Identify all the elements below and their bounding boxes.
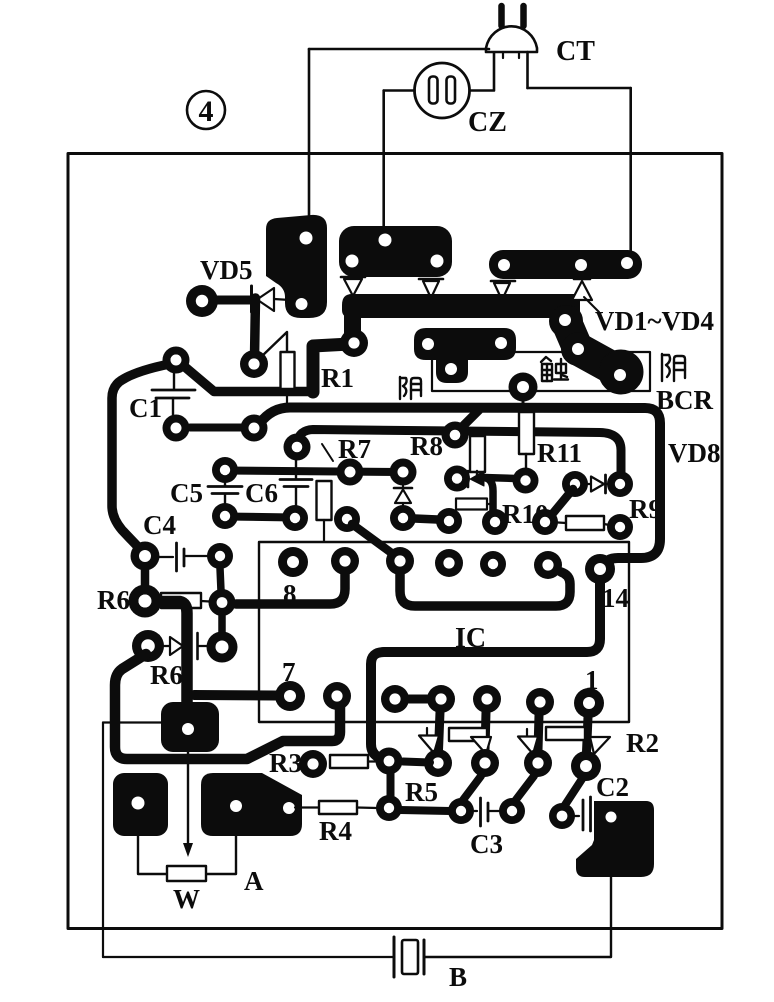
pad node below VD5 [240, 350, 268, 378]
pad pin 7 [275, 681, 305, 711]
svg-text:C3: C3 [470, 829, 503, 859]
diode VD5 symbol [252, 286, 291, 312]
pad pin 12 [480, 551, 506, 577]
capacitor C6 symbol [280, 459, 312, 505]
pad BCR gate [509, 373, 538, 402]
pad blob bottom-left [113, 773, 168, 836]
resistor R1 body [281, 352, 295, 389]
svg-text:C6: C6 [245, 478, 278, 508]
svg-text:C1: C1 [129, 393, 162, 423]
pad C4 right [207, 543, 233, 569]
pad blob C2 (bottom right) [576, 801, 654, 877]
pad C4 left [131, 542, 160, 571]
pad VD7 cathode [207, 632, 238, 663]
wire R4 right lead [357, 806, 377, 809]
label yin (right) [662, 354, 685, 381]
pad VD5 anode [186, 285, 218, 317]
pad pin 10 [386, 547, 414, 575]
pad R6 right [209, 589, 236, 616]
trace blob top-middle (CZ net) [339, 226, 452, 277]
svg-text:R6: R6 [97, 585, 130, 615]
diode VD4 [572, 279, 592, 300]
svg-text:14: 14 [602, 583, 629, 613]
pad VD6 top [390, 459, 417, 486]
trace R6 net down to blob [150, 602, 187, 709]
plug CT [486, 6, 537, 58]
trace diagonal to IC pad [352, 524, 397, 557]
svg-text:C2: C2 [596, 772, 629, 802]
diode VD7 symbol [162, 633, 209, 659]
svg-text:R8: R8 [410, 431, 443, 461]
svg-text:R3: R3 [269, 748, 302, 778]
capacitor C3 symbol [472, 798, 500, 826]
pad VD8 right [607, 471, 633, 497]
pad pin 14 [585, 554, 615, 584]
trace B (pin 14 down around to R3) [371, 578, 600, 759]
diode VD8 symbol [588, 475, 609, 493]
resistor body (row, left) [449, 728, 487, 741]
pad hole middle [379, 234, 392, 247]
trace A (pin 12 to pin 10) [400, 570, 570, 606]
pad R11 bottom [513, 468, 539, 494]
wire A-box left vertical [102, 723, 104, 958]
pad C1 bottom [163, 415, 190, 442]
diode VD1 [341, 277, 365, 296]
pad R6 left [129, 585, 162, 618]
pad pin 6 [323, 682, 351, 710]
wire plug right prong down [526, 52, 529, 88]
capacitor C2 symbol [574, 797, 591, 831]
svg-text:C4: C4 [143, 510, 176, 540]
trace pin1 stub down [587, 717, 589, 752]
wire R1 bottom lead [286, 396, 288, 408]
capacitor C1 symbol [152, 372, 195, 415]
trace diagonal R9 left pad up [549, 489, 573, 518]
pad row below pin3 [471, 749, 499, 777]
thyristor symbol T2 [471, 737, 491, 754]
pad node mid row [334, 506, 360, 532]
wire CZ left to vertical [384, 89, 415, 92]
pad R9 left [532, 509, 558, 535]
pad pin 8 [278, 547, 308, 577]
thyristor symbol T1 [419, 728, 439, 753]
trace bar top-right [489, 250, 642, 279]
potentiometer W body [167, 866, 206, 881]
svg-text:R9: R9 [629, 494, 662, 524]
resistor R8 body [470, 436, 485, 472]
pad C1 top [163, 347, 190, 374]
component outline BCR box [432, 352, 650, 391]
resistor R10 body [452, 499, 492, 515]
svg-text:R1: R1 [321, 363, 354, 393]
pad node left of bar2 [241, 415, 268, 442]
thick power trace (mega bar) [342, 294, 580, 336]
wire R4 left lead [295, 806, 319, 808]
arrow to R7 [322, 444, 333, 461]
pad C5 bottom [212, 503, 238, 529]
wire pad to R1 top [261, 332, 287, 357]
pad hole [445, 363, 457, 375]
trace blob BCR left [414, 328, 516, 383]
pad hole left [346, 255, 359, 268]
pad gate left [444, 466, 470, 492]
pad row below pin4 [424, 749, 452, 777]
svg-text:R11: R11 [537, 438, 582, 468]
svg-text:1: 1 [585, 665, 599, 695]
pad hole restated [171, 355, 182, 366]
wire W right [207, 836, 236, 874]
pad VD7 anode [132, 630, 164, 662]
board outline [68, 154, 722, 929]
trace R3 pad to T1 pad [403, 762, 430, 763]
resistor R2 body [546, 727, 585, 740]
pad R1 top (mega bar net) [340, 329, 368, 357]
pad hole middle [575, 259, 587, 271]
resistor R6 body [161, 593, 201, 608]
trace bar2 (long trace to pin 14) [260, 408, 660, 568]
svg-text:R4: R4 [319, 816, 352, 846]
diode VD3 [491, 281, 515, 300]
trace C4 left down to R6 pad [141, 568, 150, 590]
trace stub down [218, 615, 226, 634]
pad C3 right [499, 798, 525, 824]
thyristor symbol T3 [518, 729, 538, 754]
gate line: pad, tick, arrow, trace to R11 pad [468, 471, 516, 512]
wire R6 right lead [201, 600, 210, 603]
pad hole in blob bottom [296, 298, 308, 310]
wire left vertical plug net down to PCB blob [308, 49, 311, 222]
pad pin 13 [534, 551, 562, 579]
trace VD5 cathode vertical [255, 298, 256, 358]
trace pin5 to pin4 [395, 695, 441, 704]
pad hole right [431, 255, 444, 268]
wire bottom to B [103, 956, 393, 958]
pad pin 9 [331, 547, 359, 575]
pad R9 right [607, 514, 633, 540]
pad C6 bottom [282, 505, 308, 531]
capacitor C4 symbol [158, 543, 208, 571]
svg-text:A: A [244, 866, 264, 896]
trace pin3 stub down [485, 712, 486, 750]
pad row below pin2 [524, 749, 552, 777]
wire top horizontal to plug [309, 48, 489, 51]
capacitor C5 symbol [208, 481, 242, 504]
svg-text:R6: R6 [150, 660, 183, 690]
svg-text:C5: C5 [170, 478, 203, 508]
trace bar1 (R1 bottom net) with diagonal to C1 top pad [185, 367, 310, 392]
wire A-box outline top [103, 721, 161, 723]
svg-text:R5: R5 [405, 777, 438, 807]
label yin (left) [400, 377, 421, 399]
svg-text:4: 4 [199, 95, 214, 128]
trace blob BCR right (angled) [550, 305, 644, 395]
socket CZ [415, 63, 470, 118]
wire gate stub [522, 398, 525, 407]
pad hole [559, 314, 571, 326]
thyristor symbol T4 [590, 737, 610, 754]
svg-text:CT: CT [556, 36, 595, 67]
svg-text:CZ: CZ [468, 107, 507, 138]
pad R10 left [436, 508, 462, 534]
pad hole left [498, 259, 510, 271]
wire plug left prong down to CZ [470, 53, 494, 91]
pad row below pin1 [571, 751, 601, 781]
trace pin4 stub down [439, 712, 441, 750]
pad hole [422, 338, 434, 350]
trace diag T4 pad to C2 pad [565, 779, 582, 805]
wire R3 right lead [368, 760, 377, 762]
wire R7 bottom lead [323, 520, 325, 541]
pad pin 5 [381, 685, 409, 713]
pad C3 left [448, 798, 474, 824]
pad row mid [337, 459, 364, 486]
pad gate bottom [482, 509, 508, 535]
wire R9 leads [558, 521, 566, 524]
trace diag T2 pad to C3 left [463, 776, 481, 800]
pad pin 11 [435, 549, 463, 577]
pad R4 right [376, 795, 402, 821]
pad pin 3 [473, 685, 501, 713]
resistor R4 body [319, 801, 357, 814]
IC outline [259, 542, 629, 722]
pad hole right [621, 257, 633, 269]
resistor R7 body [317, 481, 332, 520]
trace left rail down (VD7 anode to bottom) [115, 654, 340, 759]
pad blob top (W wiper net) [161, 702, 219, 752]
pad pin 1 [574, 688, 604, 718]
svg-text:W: W [173, 884, 200, 914]
pad C2 left [549, 803, 575, 829]
pad hole [572, 343, 584, 355]
svg-text:7: 7 [282, 657, 296, 687]
trace C (pin 8 row to R6 pad) [236, 572, 345, 604]
trace R1 vertical to top pad [313, 344, 350, 392]
trace R4 pad to C3 left pad [400, 810, 450, 811]
figure number 4 badge [187, 91, 225, 129]
pad hole [495, 337, 507, 349]
resistor R3 body [330, 755, 368, 768]
trace blob top-left (plug net) [266, 215, 327, 318]
label chu (touch) [541, 357, 568, 381]
trace C1 bottom to pad [190, 424, 242, 432]
pad C5 top [212, 457, 238, 483]
svg-text:VD8: VD8 [668, 438, 721, 468]
wire right vertical down to PCB bar [629, 88, 632, 255]
pad R8 left [284, 434, 311, 461]
trace C4 right down [220, 568, 221, 591]
svg-text:B: B [449, 962, 467, 992]
svg-text:R2: R2 [626, 728, 659, 758]
trace row C5 to VD6 top [225, 471, 403, 473]
trace pin2 stub down [538, 715, 539, 750]
trace left rail (C1 top net, big left curve down to C4) [112, 362, 180, 551]
svg-text:BCR: BCR [656, 385, 714, 415]
trace VD5 anode [214, 296, 250, 305]
wire B to C2 blob [424, 876, 611, 957]
svg-text:8: 8 [283, 579, 297, 609]
pad hole restated [139, 595, 152, 608]
trace diagonal R8 pad to bar2 [458, 410, 479, 431]
pad hole [614, 369, 626, 381]
pad pin 2 [526, 688, 554, 716]
wire CZ net vertical down to PCB pad [382, 91, 385, 241]
pad R8 right [442, 422, 469, 449]
resistor R11 body [519, 412, 534, 454]
svg-text:VD5: VD5 [200, 255, 253, 285]
arrow to VD4 [584, 297, 599, 312]
pad VD8 left [562, 471, 588, 497]
wire horizontal to right [528, 87, 631, 90]
pad R3 left [299, 750, 327, 778]
trace pin 7 to R6 net [194, 690, 276, 701]
pad VD6 bottom [390, 505, 416, 531]
trace VD6 bottom to R10 left [403, 518, 449, 520]
wire W wiper with arrow [187, 752, 189, 843]
pad R3 right [376, 748, 403, 775]
wire R11 bottom lead [525, 454, 527, 470]
wire W left [138, 836, 167, 874]
pad pin 4 [427, 685, 455, 713]
trace C5 bottom pair [225, 517, 295, 518]
trace R3 right pad down to R4 pad [387, 773, 395, 796]
diode VD6 symbol [394, 483, 412, 506]
component B symbol [394, 937, 424, 977]
trace R8 bar [297, 430, 621, 473]
svg-text:VD1~VD4: VD1~VD4 [595, 306, 714, 336]
resistor R9 body [566, 516, 604, 530]
pad blob bottom-middle [201, 773, 302, 836]
trace diag T3 pad to C3 right [515, 776, 534, 801]
diode VD2 [419, 279, 443, 298]
pad hole in blob top [300, 232, 313, 245]
